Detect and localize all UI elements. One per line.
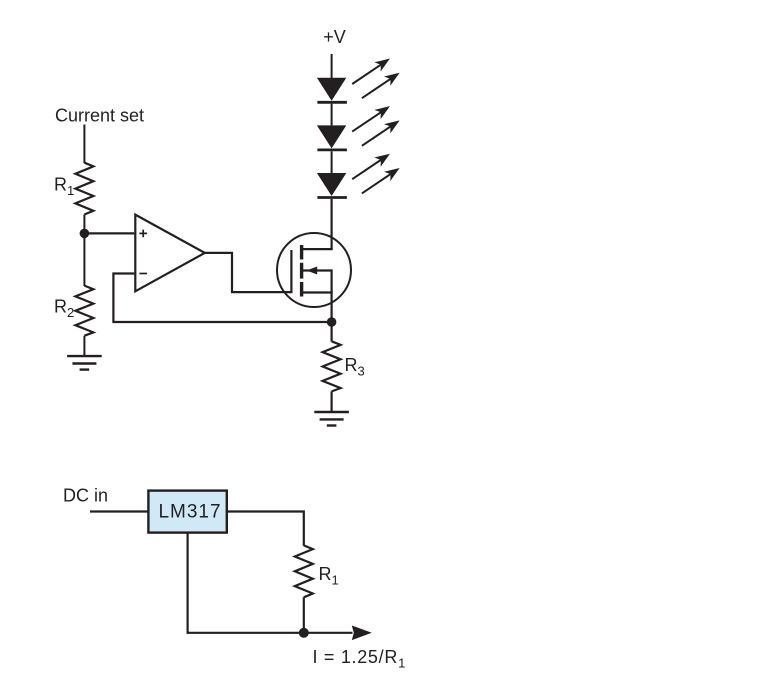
svg-text:Current set: Current set xyxy=(55,106,144,126)
wire +V to LED D1 xyxy=(331,54,333,79)
wire feedback node A to op-amp inverting input xyxy=(113,274,331,323)
wire node B to op-amp non-inverting input xyxy=(84,232,134,234)
label I = 1.25/R1 xyxy=(313,647,407,671)
wire R1 to node C xyxy=(303,597,305,633)
svg-text:R2: R2 xyxy=(54,297,74,321)
op-amp U1 plus input marker xyxy=(139,230,147,238)
wire LED D2 to LED D3 xyxy=(331,151,333,173)
wire R1 to node B xyxy=(83,215,85,234)
LED D2 xyxy=(317,125,347,149)
label R1 xyxy=(54,175,74,199)
resistor R3 xyxy=(323,341,341,391)
MOSFET Q1 body connection with arrow xyxy=(303,267,332,275)
label DC in xyxy=(63,486,108,506)
svg-text:+V: +V xyxy=(323,27,346,47)
MOSFET Q1 gate line xyxy=(290,250,292,293)
wire MOSFET body/source to node A xyxy=(331,269,333,322)
wire R2 to ground xyxy=(83,336,85,356)
svg-text:R3: R3 xyxy=(345,355,365,379)
svg-text:LM317: LM317 xyxy=(158,502,221,523)
node +V label xyxy=(323,27,346,47)
wire LED D3 to MOSFET drain xyxy=(331,199,333,249)
wire op-amp output to MOSFET gate xyxy=(205,253,292,292)
LED D2 light arrows xyxy=(349,102,403,151)
LED D3 xyxy=(317,173,347,198)
node C junction dot xyxy=(299,628,309,638)
node A junction dot xyxy=(327,317,337,327)
MOSFET Q1 source bar xyxy=(302,291,333,293)
LED D1 light arrows xyxy=(349,54,403,103)
svg-text:DC in: DC in xyxy=(63,486,108,506)
label R1 (LM317 circuit) xyxy=(319,564,339,588)
resistor R2 xyxy=(75,286,93,336)
svg-text:R1: R1 xyxy=(54,175,74,199)
MOSFET Q1 drain bar xyxy=(302,248,333,250)
wire LM317 output to resistor R1 xyxy=(227,512,304,546)
ground symbol below R3 xyxy=(314,412,349,426)
wire Current set to resistor R1 xyxy=(83,125,85,164)
regulator U2 LM317 box xyxy=(148,491,226,533)
wire DC in to LM317 xyxy=(90,510,148,512)
wire LM317 adjust to node C xyxy=(188,533,304,633)
op-amp U1 xyxy=(135,215,205,292)
wire node B to resistor R2 xyxy=(83,233,85,286)
MOSFET Q1 body circle xyxy=(277,233,351,307)
wire node A to resistor R3 xyxy=(331,322,333,342)
MOSFET Q1 channel dashes xyxy=(300,245,303,297)
wire R3 to ground xyxy=(331,391,333,412)
svg-text:R1: R1 xyxy=(319,564,339,588)
resistor R1 (LM317 circuit) xyxy=(295,545,313,597)
current output arrow xyxy=(304,626,372,641)
ground symbol below R2 xyxy=(67,356,102,370)
label R2 xyxy=(54,297,74,321)
node B junction dot xyxy=(80,229,90,239)
op-amp U1 minus input marker xyxy=(139,273,147,275)
LED D3 light arrows xyxy=(349,149,403,198)
wire LED D1 to LED D2 xyxy=(331,104,333,126)
label R3 xyxy=(345,355,365,379)
label Current set xyxy=(55,106,144,126)
resistor R1 xyxy=(75,163,93,215)
LED D1 xyxy=(317,78,347,103)
svg-text:I = 1.25/R1: I = 1.25/R1 xyxy=(313,647,407,671)
